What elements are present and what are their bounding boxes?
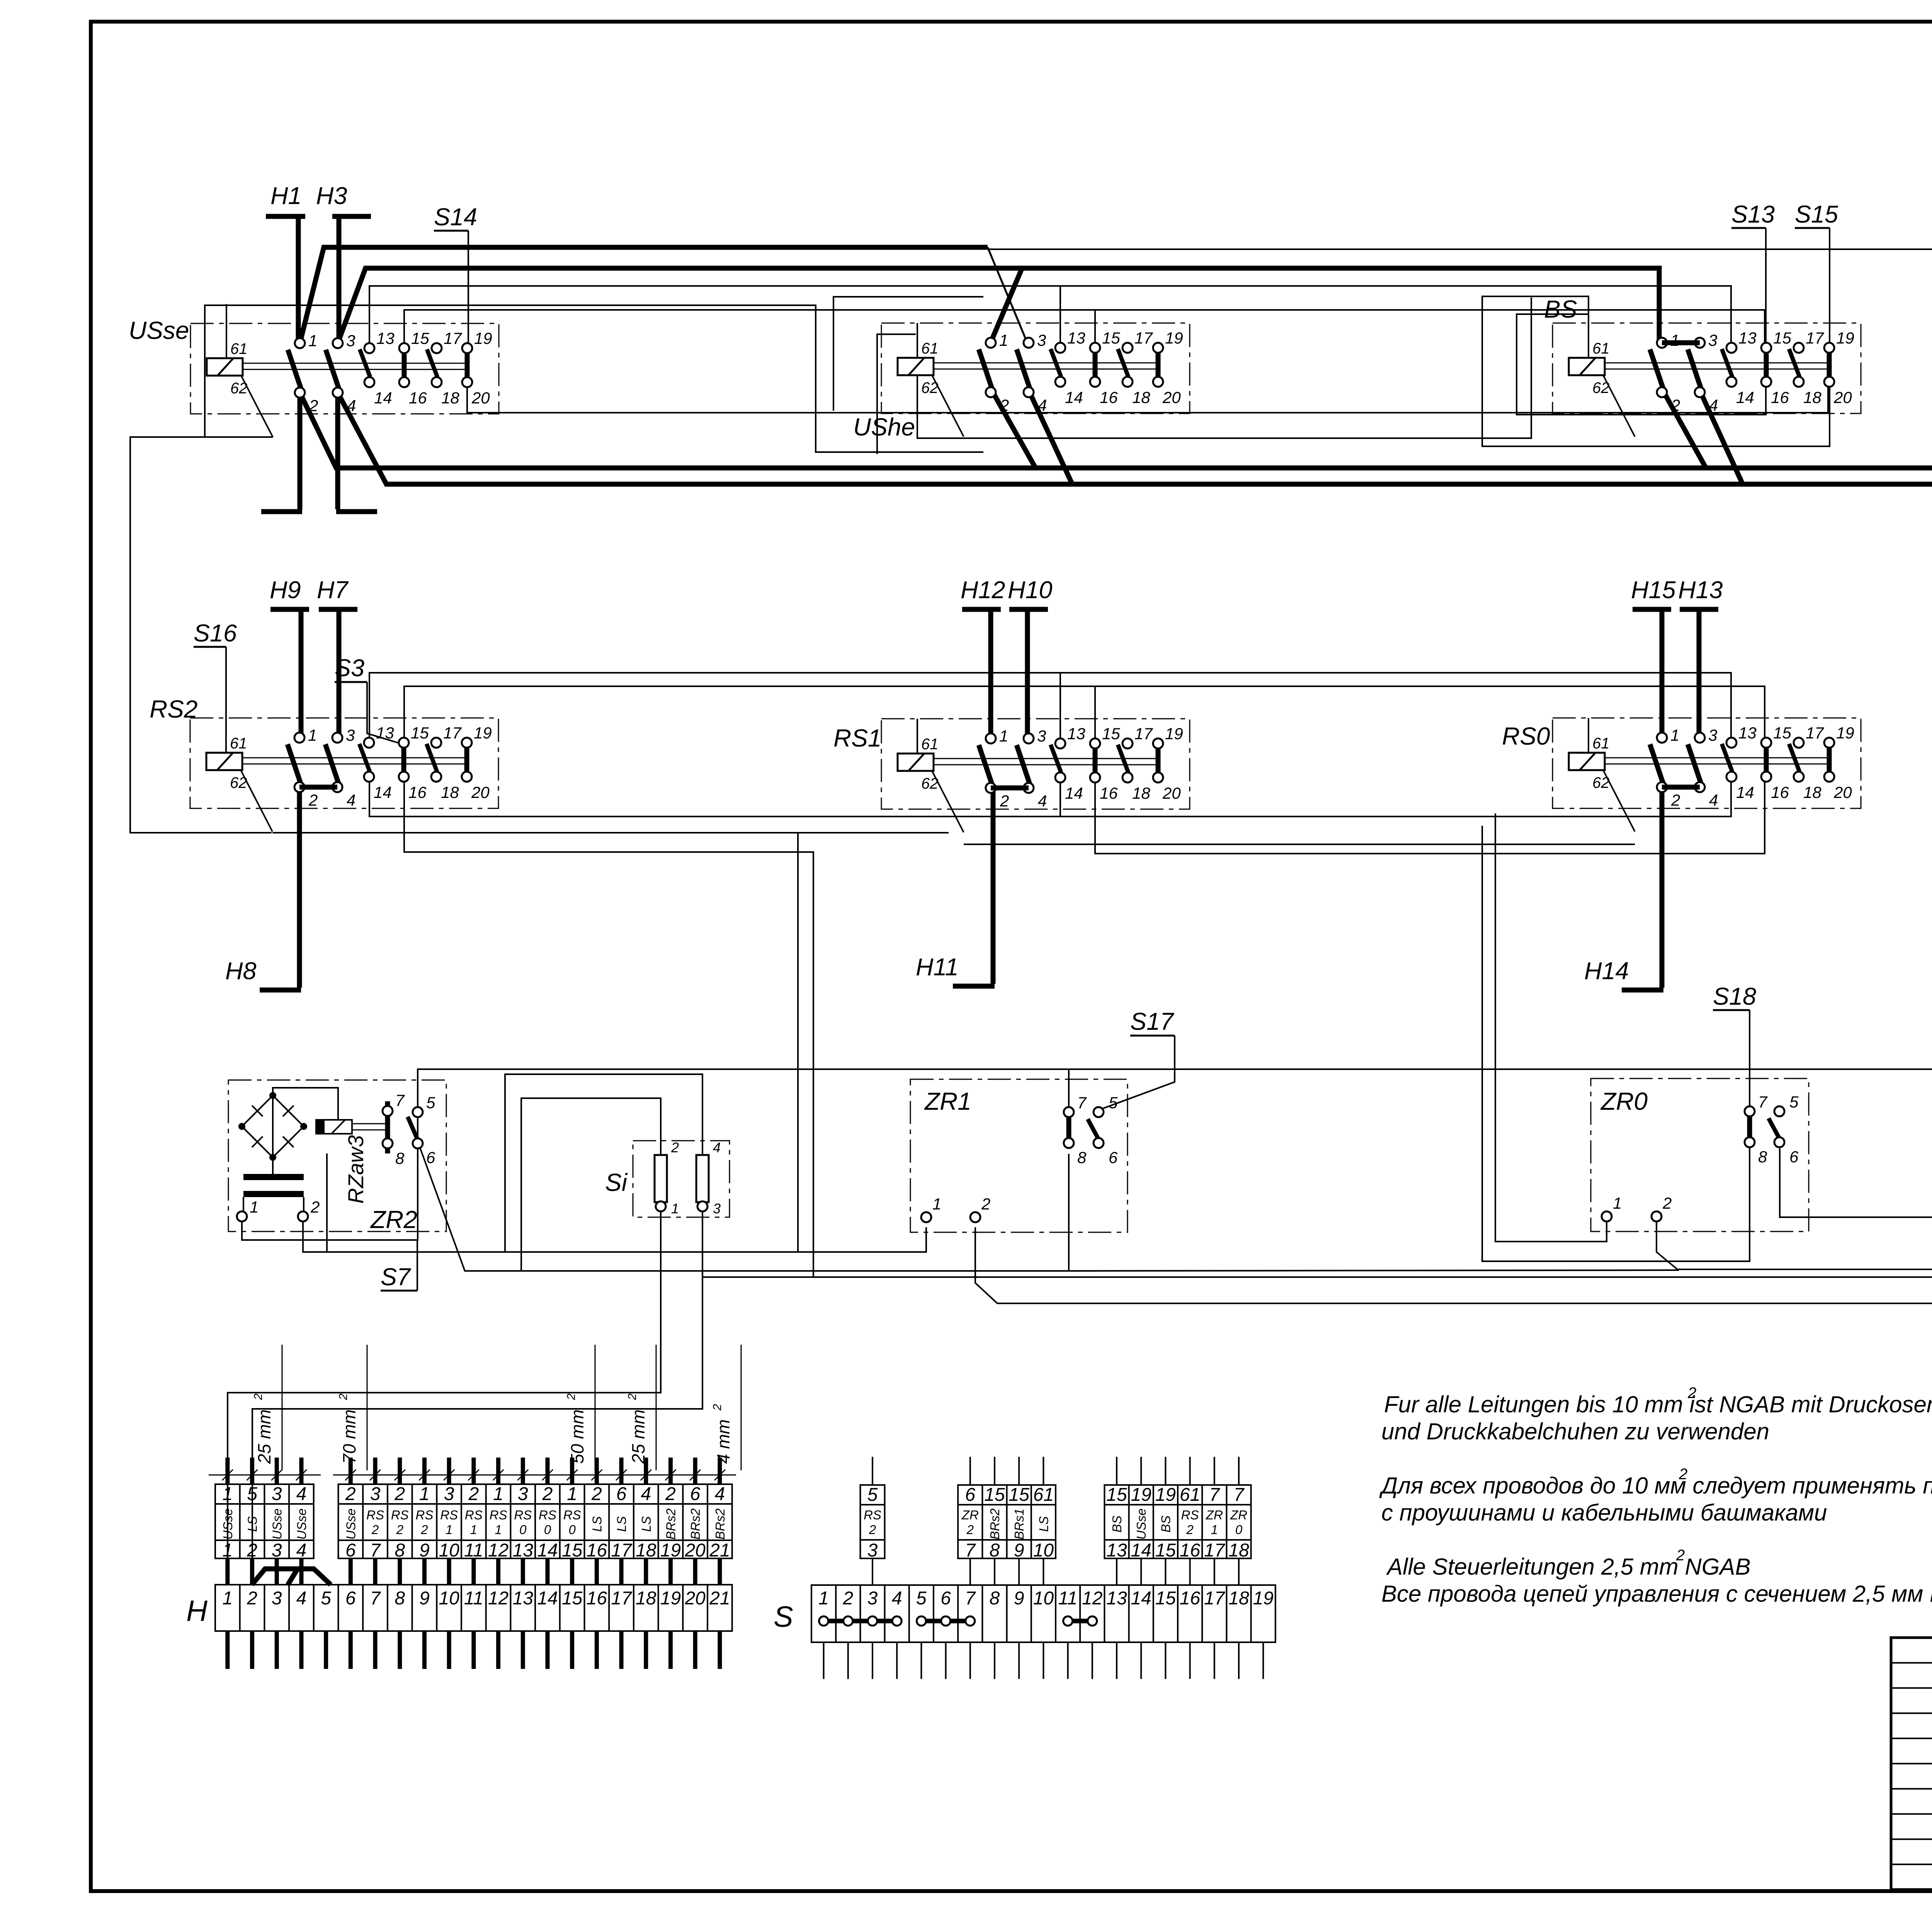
- svg-text:Si: Si: [605, 1169, 628, 1196]
- svg-text:2: 2: [394, 1484, 405, 1504]
- svg-text:3: 3: [1708, 726, 1717, 744]
- wire USse 4 band to LS 3: [338, 393, 1932, 1134]
- wire RS1 aux 13 junction: [1060, 673, 1061, 748]
- svg-text:19: 19: [1165, 329, 1183, 347]
- svg-text:S15: S15: [1795, 201, 1838, 228]
- wire cable H9 drop: [299, 609, 304, 739]
- svg-text:S14: S14: [434, 204, 477, 231]
- svg-text:13: 13: [1738, 329, 1757, 347]
- fuse group Si: [605, 1140, 730, 1217]
- bridge RS2 2-4: [299, 785, 337, 790]
- svg-text:S17: S17: [1130, 1008, 1174, 1035]
- svg-text:19: 19: [1836, 329, 1854, 347]
- contact RS0:17/18: [1789, 744, 1799, 772]
- wire row2 aux 13 net: [369, 673, 1731, 743]
- svg-text:2: 2: [981, 1195, 990, 1213]
- svg-text:LS: LS: [245, 1516, 260, 1532]
- svg-text:4: 4: [714, 1484, 725, 1504]
- contact RS2:19/20: [464, 747, 469, 773]
- svg-text:4: 4: [296, 1588, 307, 1609]
- svg-text:1: 1: [999, 727, 1008, 745]
- svg-text:ZR2: ZR2: [370, 1206, 417, 1233]
- wire UShe aux 15 junction: [1094, 310, 1096, 353]
- svg-text:62: 62: [230, 380, 248, 397]
- wire UShe enclosure b: [877, 334, 916, 454]
- svg-text:3: 3: [444, 1484, 454, 1504]
- svg-text:S7: S7: [381, 1264, 411, 1291]
- svg-text:15: 15: [1155, 1540, 1176, 1561]
- svg-text:6: 6: [426, 1148, 435, 1167]
- wire cable H14 drop: [1660, 785, 1665, 988]
- svg-text:7: 7: [370, 1540, 381, 1561]
- wire UShe coil feed: [917, 323, 918, 357]
- svg-text:2: 2: [1671, 396, 1680, 414]
- contact BS:13/14: [1722, 349, 1732, 377]
- wire cable H13 bar: [1680, 607, 1718, 612]
- svg-text:ZR0: ZR0: [1600, 1087, 1648, 1115]
- svg-text:19: 19: [660, 1588, 681, 1609]
- svg-text:15: 15: [411, 724, 429, 742]
- svg-text:17: 17: [1134, 725, 1153, 743]
- terminal ZR1:1: [921, 1212, 931, 1222]
- contact ZR1:5/6: [1088, 1119, 1099, 1140]
- wire S16 lead: [194, 646, 226, 648]
- svg-text:18: 18: [636, 1588, 656, 1609]
- coil RS2 61/62: [206, 753, 242, 770]
- svg-text:с проушинами и кабельными башм: с проушинами и кабельными башмаками: [1381, 1500, 1827, 1526]
- wire USse 1 band: [300, 247, 988, 343]
- svg-text:15: 15: [1773, 724, 1791, 742]
- svg-text:H9: H9: [270, 577, 301, 604]
- svg-text:LS: LS: [639, 1516, 653, 1532]
- svg-text:2: 2: [1186, 1522, 1193, 1537]
- contact ZR2:7/8: [385, 1101, 390, 1153]
- svg-text:20: 20: [471, 783, 490, 801]
- svg-text:14: 14: [1736, 783, 1754, 801]
- svg-text:USse: USse: [344, 1509, 358, 1540]
- svg-text:25 mm: 25 mm: [254, 1409, 274, 1464]
- svg-text:1: 1: [222, 1484, 233, 1504]
- wire S15 drop: [1482, 228, 1830, 446]
- svg-text:20: 20: [1162, 784, 1181, 802]
- H pins: [225, 1458, 230, 1484]
- svg-text:21: 21: [709, 1588, 730, 1609]
- svg-text:0: 0: [1235, 1522, 1243, 1537]
- svg-text:1: 1: [567, 1484, 577, 1504]
- svg-text:Alle Steuerleitungen 2,5 mm N: Alle Steuerleitungen 2,5 mm NGAB: [1386, 1554, 1750, 1580]
- svg-text:16: 16: [1100, 388, 1118, 407]
- svg-text:RS: RS: [416, 1508, 434, 1522]
- svg-text:2: 2: [1671, 791, 1680, 809]
- svg-text:H12: H12: [961, 577, 1005, 604]
- svg-text:2: 2: [1679, 1466, 1687, 1483]
- svg-text:2: 2: [345, 1484, 356, 1504]
- wire cable H3 drop: [337, 216, 342, 345]
- svg-text:3: 3: [1037, 331, 1046, 349]
- wire row2 aux 16 net: [404, 775, 813, 1277]
- S jumper 11-12: [1068, 1619, 1092, 1623]
- wire RS1 aux 15 junction: [1094, 686, 1096, 748]
- svg-text:3: 3: [346, 332, 355, 350]
- contact RS0:19/20: [1827, 747, 1832, 773]
- contact RS1:19/20: [1156, 747, 1161, 774]
- svg-text:5: 5: [247, 1484, 257, 1504]
- svg-text:16: 16: [587, 1588, 607, 1609]
- svg-text:5: 5: [867, 1485, 878, 1505]
- svg-text:2: 2: [711, 1404, 724, 1411]
- svg-text:0: 0: [544, 1522, 551, 1537]
- svg-text:19: 19: [1155, 1485, 1176, 1505]
- contact UShe:1/2: [979, 349, 992, 388]
- svg-text:4: 4: [713, 1140, 721, 1155]
- wire USse 62 net: [130, 437, 273, 833]
- wire S13 lead: [1731, 227, 1766, 229]
- svg-text:18: 18: [1132, 784, 1150, 802]
- svg-text:2: 2: [371, 1522, 379, 1537]
- svg-text:10: 10: [439, 1540, 459, 1561]
- svg-text:2: 2: [542, 1484, 553, 1504]
- wire S18 lead: [1713, 1009, 1750, 1011]
- svg-text:3: 3: [867, 1588, 878, 1609]
- wire cable H3 bar: [332, 214, 371, 219]
- svg-text:6: 6: [965, 1485, 975, 1505]
- svg-text:RS: RS: [539, 1508, 556, 1522]
- contactor RS1: [833, 719, 1190, 832]
- H main table: [215, 1585, 732, 1631]
- svg-text:RS: RS: [440, 1508, 458, 1522]
- svg-text:13: 13: [1067, 725, 1085, 743]
- svg-text:2: 2: [396, 1522, 403, 1537]
- svg-text:6: 6: [940, 1588, 951, 1609]
- contactor RS2: [150, 695, 498, 832]
- svg-text:LS: LS: [1036, 1516, 1051, 1532]
- svg-text:3: 3: [370, 1484, 381, 1504]
- svg-text:18: 18: [441, 389, 459, 407]
- svg-text:9: 9: [419, 1540, 430, 1561]
- wire UShe 1 branch: [991, 268, 1022, 342]
- svg-text:16: 16: [1180, 1588, 1201, 1609]
- svg-text:USse: USse: [294, 1509, 309, 1540]
- svg-text:H8: H8: [225, 958, 257, 985]
- wire row1 aux 13 net: [369, 286, 1731, 348]
- wire cable H9 bar: [270, 607, 309, 612]
- wire row2 aux 16 net b: [1095, 775, 1765, 854]
- wire USse 3 band: [338, 268, 1659, 343]
- wire RS1 aux 14 junction: [1060, 775, 1061, 816]
- svg-text:16: 16: [1100, 784, 1118, 802]
- svg-text:12: 12: [488, 1540, 509, 1561]
- svg-text:25 mm: 25 mm: [628, 1409, 648, 1464]
- svg-text:4: 4: [1038, 792, 1047, 810]
- wire cable H13 drop: [1697, 609, 1702, 739]
- wire cable H15 bar: [1633, 607, 1671, 612]
- relay coil RZaw3: [316, 1120, 352, 1134]
- svg-text:S3: S3: [335, 655, 364, 682]
- svg-text:ZR1: ZR1: [924, 1087, 971, 1115]
- contact RS1:3/4: [1017, 745, 1030, 784]
- svg-text:7: 7: [370, 1588, 381, 1609]
- svg-text:15: 15: [562, 1540, 583, 1561]
- svg-text:8: 8: [395, 1588, 405, 1609]
- svg-text:2: 2: [869, 1522, 876, 1537]
- svg-text:1: 1: [222, 1588, 233, 1609]
- S jumper 1-4: [824, 1619, 897, 1623]
- wire row2 62 net b: [964, 844, 1635, 845]
- svg-text:18: 18: [441, 783, 459, 801]
- time relay ZR1: [910, 1079, 1128, 1232]
- wire row2 aux 14 net: [369, 775, 1731, 816]
- svg-text:4: 4: [1709, 396, 1718, 414]
- wire row1 aux 15 net: [404, 310, 1765, 348]
- svg-text:BRs2: BRs2: [988, 1509, 1002, 1540]
- svg-text:RS: RS: [514, 1508, 532, 1522]
- wire USse enclosure loop: [205, 305, 983, 452]
- svg-text:S18: S18: [1713, 983, 1756, 1010]
- wire Si fuse1 bottom to H1: [228, 1211, 661, 1585]
- svg-text:8: 8: [1077, 1148, 1087, 1167]
- svg-text:3: 3: [272, 1484, 282, 1504]
- terminal strip S: [774, 1457, 1276, 1679]
- svg-text:14: 14: [537, 1540, 558, 1561]
- svg-text:18: 18: [1803, 388, 1821, 407]
- svg-text:Все провода цепей управления с: Все провода цепей управления с сечением …: [1381, 1581, 1932, 1607]
- svg-text:20: 20: [1162, 388, 1181, 407]
- svg-text:2: 2: [1662, 1194, 1672, 1212]
- svg-text:BS: BS: [1158, 1516, 1173, 1533]
- svg-text:BRs2: BRs2: [713, 1509, 727, 1540]
- terminal ZR1:2: [970, 1212, 980, 1222]
- terminal ZR0:2: [1651, 1211, 1662, 1221]
- wire UShe 3 branch: [988, 247, 1027, 343]
- svg-text:6: 6: [345, 1540, 356, 1561]
- svg-text:14: 14: [374, 389, 392, 407]
- wire S7 lead: [381, 1290, 417, 1292]
- contact RS1:17/18: [1118, 745, 1128, 772]
- wire Si fuse3 bottom to H2: [252, 1211, 702, 1585]
- svg-text:2: 2: [842, 1588, 853, 1609]
- svg-text:USse: USse: [270, 1509, 284, 1540]
- svg-text:1: 1: [222, 1540, 233, 1561]
- svg-text:H: H: [186, 1595, 207, 1628]
- wire S10 down line: [702, 1159, 1932, 1277]
- wire ZR1 8 net: [1069, 1154, 1679, 1271]
- svg-text:20: 20: [684, 1588, 706, 1609]
- contact USse:19/20: [465, 352, 470, 378]
- contact BS:19/20: [1827, 352, 1832, 378]
- coil RS0 61/62: [1569, 753, 1605, 770]
- wire USse 2 band to LS 1: [300, 393, 1932, 1134]
- svg-text:ZR: ZR: [1206, 1508, 1223, 1522]
- wire ZR0 8 net: [1482, 826, 1750, 1261]
- svg-text:13: 13: [1738, 724, 1757, 742]
- contact UShe:19/20: [1156, 352, 1161, 378]
- svg-text:5: 5: [1789, 1093, 1799, 1111]
- svg-text:2: 2: [247, 1540, 257, 1561]
- svg-text:14: 14: [1131, 1540, 1151, 1561]
- svg-text:7: 7: [965, 1588, 976, 1609]
- svg-text:6: 6: [616, 1484, 627, 1504]
- svg-text:14: 14: [1065, 784, 1083, 802]
- svg-text:61: 61: [1592, 735, 1610, 752]
- S mini table BS..ZR0: [1104, 1485, 1251, 1558]
- contact RS1:1/2: [979, 745, 992, 784]
- svg-text:4: 4: [347, 396, 356, 415]
- svg-text:19: 19: [1253, 1588, 1274, 1609]
- contact UShe:3/4: [1017, 349, 1030, 388]
- contactor UShe: [853, 323, 1190, 441]
- svg-text:13: 13: [376, 724, 394, 742]
- svg-text:10: 10: [1033, 1540, 1054, 1561]
- svg-text:61: 61: [1180, 1485, 1200, 1505]
- svg-text:ZR: ZR: [961, 1508, 979, 1522]
- bridge RS0 2-4: [1662, 785, 1700, 790]
- svg-text:19: 19: [474, 724, 492, 742]
- svg-text:8: 8: [990, 1540, 1000, 1561]
- svg-text:15: 15: [1102, 725, 1120, 743]
- svg-text:18: 18: [636, 1540, 656, 1561]
- svg-text:5: 5: [426, 1094, 435, 1112]
- svg-text:13: 13: [1106, 1540, 1127, 1561]
- svg-text:15: 15: [411, 329, 429, 347]
- svg-text:62: 62: [921, 775, 939, 792]
- wire ZR2 1 to S10 net: [242, 1069, 1932, 1240]
- contact RS1:13/14: [1051, 745, 1061, 772]
- notes DE/RU: [1379, 1385, 1932, 1607]
- time relay ZR0: [1591, 1078, 1809, 1232]
- svg-text:3: 3: [867, 1540, 878, 1561]
- wire cable H11 drop: [991, 787, 996, 984]
- svg-text:RS: RS: [490, 1508, 507, 1522]
- svg-text:13: 13: [1106, 1588, 1127, 1609]
- svg-text:15: 15: [984, 1485, 1005, 1505]
- svg-text:Для всех проводов до 10 мм сл: Для всех проводов до 10 мм следует приме…: [1379, 1473, 1932, 1499]
- svg-text:4: 4: [347, 791, 355, 809]
- svg-text:20: 20: [684, 1540, 706, 1561]
- contact RS2:17/18: [427, 744, 437, 772]
- svg-text:17: 17: [1204, 1540, 1226, 1561]
- svg-text:13: 13: [513, 1588, 534, 1609]
- svg-text:14: 14: [1065, 388, 1083, 407]
- svg-text:62: 62: [1592, 774, 1610, 791]
- wire S15 lead: [1795, 227, 1830, 229]
- svg-text:2: 2: [1676, 1547, 1685, 1564]
- svg-text:RS: RS: [366, 1508, 384, 1522]
- svg-text:1: 1: [671, 1201, 679, 1216]
- svg-text:13: 13: [376, 329, 395, 347]
- S mini table ZR2/BRs2/BRs1/LS: [958, 1485, 1056, 1558]
- svg-text:62: 62: [921, 379, 939, 396]
- wire cable H11 bar: [953, 984, 995, 989]
- svg-text:4: 4: [1038, 396, 1047, 414]
- svg-text:USse: USse: [1134, 1509, 1148, 1540]
- svg-text:18: 18: [1228, 1540, 1249, 1561]
- svg-text:4: 4: [296, 1484, 307, 1504]
- svg-text:11: 11: [464, 1588, 483, 1609]
- svg-text:1: 1: [446, 1522, 452, 1537]
- svg-text:61: 61: [921, 340, 939, 357]
- svg-text:3: 3: [1708, 331, 1717, 349]
- svg-text:H3: H3: [316, 182, 347, 209]
- bridge BS 1-3: [1662, 340, 1700, 345]
- svg-text:16: 16: [587, 1540, 607, 1561]
- svg-text:16: 16: [1771, 783, 1789, 801]
- contact RS1:15/16: [1093, 747, 1098, 774]
- svg-text:H15: H15: [1631, 577, 1676, 604]
- wire UShe 4 junction: [1030, 393, 1072, 484]
- wire cable H7 drop: [337, 609, 342, 739]
- wire S3 drop: [367, 682, 404, 745]
- svg-text:1: 1: [818, 1588, 829, 1609]
- wire row2 aux 15 net: [404, 686, 1765, 743]
- svg-text:4 mm: 4 mm: [713, 1419, 733, 1464]
- svg-text:RS: RS: [465, 1508, 483, 1522]
- contact ZR0:5/6: [1769, 1118, 1780, 1139]
- svg-text:16: 16: [1180, 1540, 1201, 1561]
- svg-text:18: 18: [1132, 388, 1150, 407]
- fuse Si:1/2: [655, 1155, 667, 1202]
- svg-text:7: 7: [965, 1540, 976, 1561]
- svg-text:2: 2: [310, 1198, 320, 1216]
- H upper table group 1: [215, 1484, 314, 1558]
- svg-text:RS1: RS1: [833, 724, 882, 752]
- wire cable H1 drop: [296, 216, 301, 345]
- svg-text:62: 62: [230, 774, 247, 791]
- svg-text:14: 14: [374, 783, 392, 801]
- svg-text:17: 17: [443, 724, 462, 742]
- contact UShe:13/14: [1051, 349, 1061, 377]
- wire ZR2 2 net: [303, 833, 798, 1252]
- wire cable H10 bar: [1009, 607, 1048, 612]
- svg-text:20: 20: [471, 389, 490, 407]
- svg-text:8: 8: [395, 1540, 405, 1561]
- title block: [1891, 1638, 1932, 1890]
- svg-text:8: 8: [395, 1149, 405, 1167]
- svg-text:17: 17: [1806, 724, 1824, 742]
- contact RS2:13/14: [359, 744, 370, 772]
- svg-text:RS: RS: [1181, 1508, 1199, 1522]
- svg-text:1: 1: [308, 726, 317, 744]
- svg-text:14: 14: [1736, 388, 1754, 407]
- svg-text:H11: H11: [916, 954, 959, 981]
- contactor USse: [129, 316, 499, 437]
- svg-text:LS: LS: [590, 1516, 604, 1532]
- svg-text:4: 4: [296, 1540, 307, 1561]
- svg-text:3: 3: [272, 1588, 282, 1609]
- wire UShe enclosure a: [833, 297, 983, 411]
- svg-text:USse: USse: [221, 1509, 235, 1540]
- svg-text:19: 19: [1165, 725, 1183, 743]
- wire RS0 coil feed: [1588, 719, 1589, 753]
- wire BS 4 junction: [1699, 389, 1743, 484]
- svg-text:RS0: RS0: [1502, 722, 1550, 750]
- svg-text:USse: USse: [129, 316, 189, 344]
- svg-text:0: 0: [519, 1522, 527, 1537]
- wire S7 drop: [417, 1240, 418, 1291]
- svg-text:8: 8: [1758, 1148, 1767, 1166]
- wire cable H10 drop: [1025, 609, 1030, 740]
- svg-text:4: 4: [641, 1484, 651, 1504]
- wire S16 drop: [225, 647, 227, 719]
- H jumper 2-3-4: [252, 1569, 331, 1585]
- contact RS2:1/2: [287, 744, 301, 783]
- svg-text:2: 2: [308, 791, 318, 809]
- svg-text:5: 5: [916, 1588, 927, 1609]
- contact USse:17/18: [427, 349, 437, 377]
- svg-text:H14: H14: [1584, 958, 1629, 985]
- svg-text:S16: S16: [194, 620, 237, 647]
- svg-text:15: 15: [1773, 329, 1791, 347]
- contact RS0:13/14: [1722, 744, 1732, 772]
